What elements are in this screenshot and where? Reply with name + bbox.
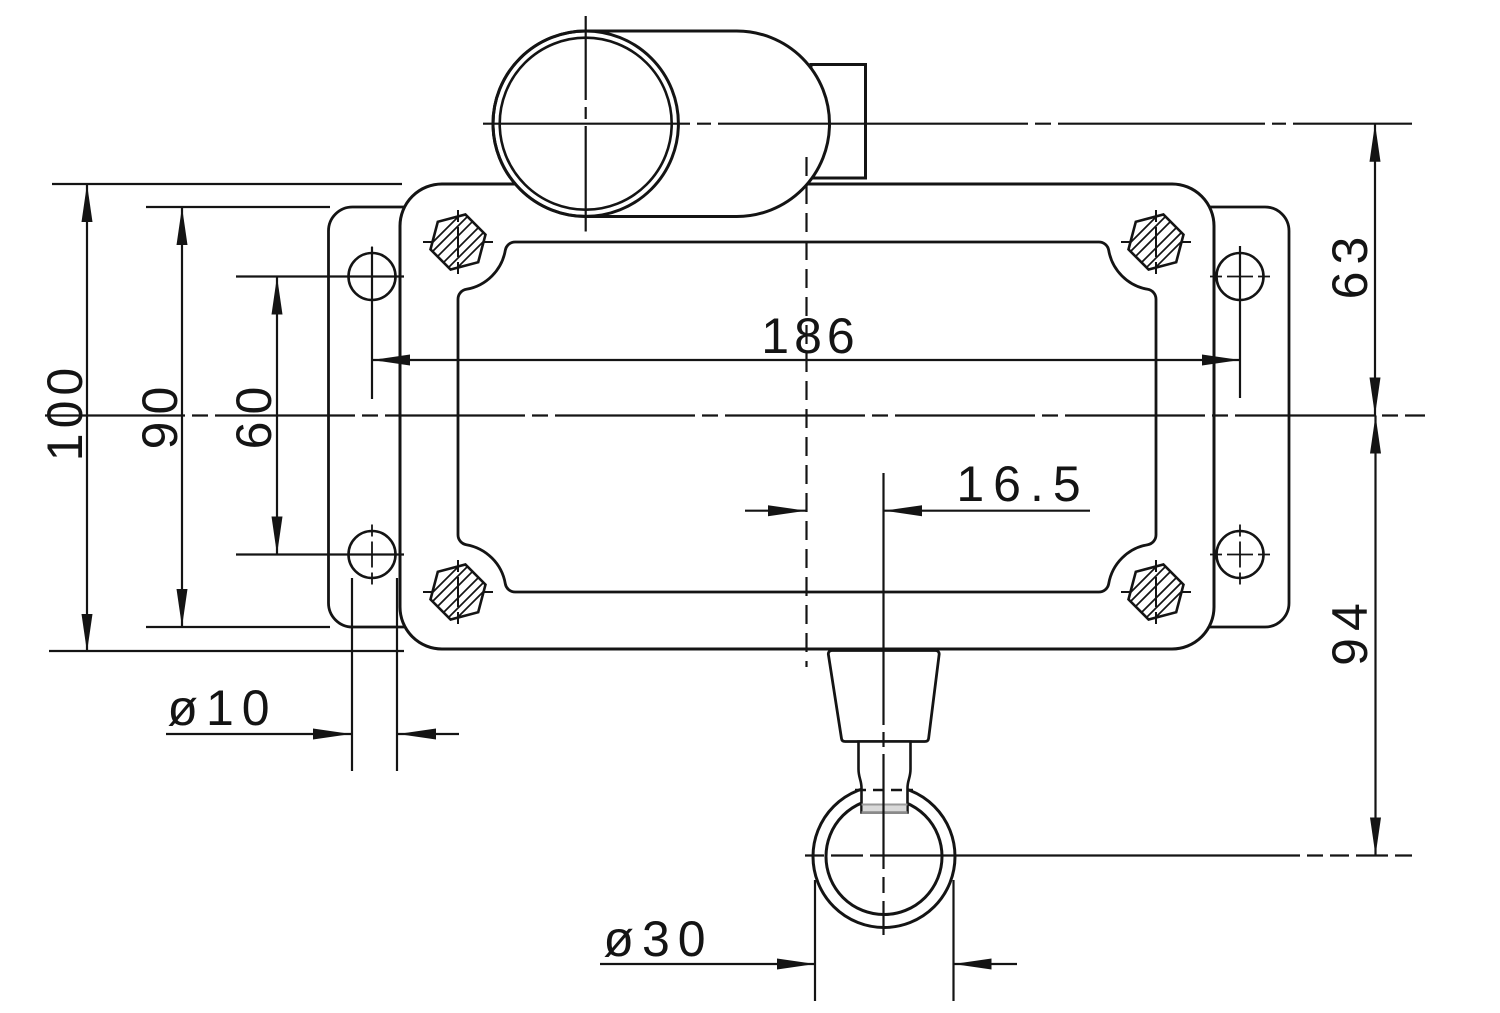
extension line body bottom: [49, 650, 404, 652]
arrowhead 90 top: [177, 207, 188, 245]
arrowhead 186 right: [1202, 355, 1240, 366]
svg-text:63: 63: [1322, 230, 1378, 300]
head inner circle: [500, 38, 672, 210]
arrowhead 60 top: [272, 277, 283, 315]
extension line bottom hole: [236, 553, 404, 555]
extension line top hole: [236, 275, 404, 277]
ring horizontal centerline / 94 extension: [805, 854, 1412, 856]
dimension 100: [86, 184, 88, 652]
actuator ring inner circle: [826, 799, 942, 915]
body vertical centerline dashed: [805, 157, 807, 667]
dimension diameter 10: [351, 578, 353, 771]
svg-text:16.5: 16.5: [956, 456, 1089, 512]
conduit entry boss: [811, 65, 866, 179]
arrowhead 60 bottom: [272, 517, 283, 555]
arrowhead dia30 right: [954, 959, 992, 970]
mounting hole bottom-right: [1210, 525, 1270, 585]
svg-text:90: 90: [132, 380, 188, 450]
arrowhead 16.5 right: [884, 505, 922, 516]
mounting flange plate: [329, 207, 1290, 627]
arrowhead dia10 right: [398, 729, 436, 740]
cover screw top-right: [1118, 204, 1195, 281]
extension line 186 left (hole centre): [371, 247, 373, 399]
arrowhead 186 left: [372, 355, 410, 366]
main horizontal centerline: [45, 414, 1425, 416]
dimension 94: [1374, 416, 1376, 856]
svg-text:100: 100: [37, 363, 93, 461]
cover screw bottom-left: [420, 554, 497, 631]
svg-text:ø30: ø30: [603, 911, 713, 967]
arrowhead dia30 left: [777, 959, 815, 970]
plunger stem: [859, 742, 911, 813]
extension line 186 right (hole centre): [1239, 246, 1241, 398]
extension line flange bottom: [146, 626, 330, 628]
head outer circle: [493, 31, 678, 216]
arrowhead 94 top: [1370, 416, 1381, 454]
arrowhead 100 bottom: [82, 614, 93, 652]
svg-text:60: 60: [226, 380, 282, 450]
head vertical centerline: [585, 16, 587, 232]
dimension 63: [1374, 124, 1376, 416]
extension line flange top: [146, 206, 330, 208]
svg-text:94: 94: [1322, 596, 1378, 666]
mounting hole top-left: [342, 247, 402, 307]
switch body outline: [400, 184, 1214, 649]
svg-text:186: 186: [761, 308, 859, 364]
arrowhead dia10 left: [313, 729, 351, 740]
actuator head capsule: [493, 31, 830, 217]
actuator ring outer circle: [813, 786, 955, 928]
dimension diameter 30: [814, 880, 816, 1001]
hidden ring edge across stem: [855, 789, 913, 791]
dimension 60: [276, 277, 278, 555]
arrowhead 94 bottom: [1370, 818, 1381, 856]
plunger vertical centerline: [882, 473, 884, 935]
arrowhead 63 bottom: [1370, 378, 1381, 416]
mounting hole bottom-left: [342, 525, 402, 585]
plunger boot trapezoid: [828, 651, 939, 742]
dimension 16.5: [745, 510, 806, 512]
dimension 186: [372, 359, 1240, 361]
mounting hole top-right: [1210, 247, 1270, 307]
cover inner outline with screw notches: [458, 242, 1156, 592]
extension line body top: [52, 183, 402, 185]
arrowhead 100 top: [82, 184, 93, 222]
dimension 90: [181, 207, 183, 627]
clamp band on stem: [863, 805, 907, 813]
head horizontal centerline / 63 extension: [483, 123, 1412, 125]
arrowhead 63 top: [1370, 124, 1381, 162]
cover screw top-left: [420, 204, 497, 281]
cover screw bottom-right: [1118, 554, 1195, 631]
svg-text:ø10: ø10: [167, 680, 277, 736]
arrowhead 90 bottom: [177, 589, 188, 627]
arrowhead 16.5 left: [768, 505, 806, 516]
